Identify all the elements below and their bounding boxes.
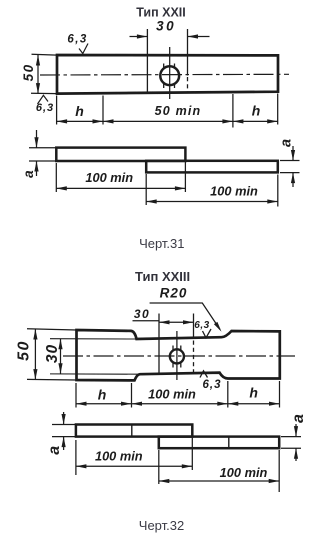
svg-text:a: a bbox=[279, 139, 295, 147]
svg-text:Черт.32: Черт.32 bbox=[139, 518, 184, 533]
side view: upper bar bbox=[76, 425, 192, 437]
side view: lower bar bbox=[159, 437, 279, 449]
svg-text:h: h bbox=[252, 102, 261, 118]
svg-text:h: h bbox=[75, 103, 84, 119]
roughness mark 6,3 bottom-left bbox=[38, 95, 49, 104]
plug weld hole bbox=[170, 349, 184, 363]
side view: upper plate bbox=[56, 148, 185, 161]
svg-text:6,3: 6,3 bbox=[67, 34, 88, 46]
svg-text:100 min: 100 min bbox=[85, 170, 133, 185]
ext lines for 30 dim crossing grip bbox=[50, 339, 140, 375]
thickness dim a right (fig2) bbox=[281, 437, 301, 449]
bottom dimension chain h / 100 min / h bbox=[76, 381, 280, 408]
svg-text:6,3: 6,3 bbox=[36, 102, 54, 114]
plan view: plate edge x=187.3 (ext + solid + hidden) bbox=[187, 29, 189, 76]
thickness dim a (left) bbox=[29, 148, 56, 161]
hidden plate edge x=193.5 bbox=[193, 314, 195, 339]
svg-text:6,3: 6,3 bbox=[203, 379, 222, 391]
ext lines for 50 dim bbox=[27, 329, 77, 380]
svg-text:100 min: 100 min bbox=[210, 184, 258, 199]
svg-text:Черт.31: Черт.31 bbox=[139, 236, 184, 251]
bottom dimension chain h / 50 min / h bbox=[57, 94, 278, 128]
svg-text:100 min: 100 min bbox=[220, 465, 268, 480]
svg-text:30: 30 bbox=[134, 307, 150, 321]
svg-text:6,3: 6,3 bbox=[194, 320, 209, 331]
thickness dim a left (fig2) bbox=[52, 425, 75, 437]
dimension 50 (left vertical) bbox=[31, 54, 57, 93]
horizontal axis centerline bbox=[63, 355, 295, 357]
side view: lower plate bbox=[146, 161, 278, 173]
hole edge ticks bbox=[164, 64, 175, 89]
dim 100 min (upper plate) bbox=[56, 162, 185, 192]
svg-text:a: a bbox=[46, 446, 63, 455]
svg-text:Тип XXIII: Тип XXIII bbox=[135, 269, 190, 284]
plan view: visible plate edge x=146.7 bbox=[146, 29, 148, 93]
hole vertical centerline bbox=[169, 47, 171, 99]
svg-text:30: 30 bbox=[156, 19, 176, 34]
svg-text:30: 30 bbox=[44, 344, 61, 363]
visible plate edge x=159 bbox=[158, 314, 160, 374]
svg-text:h: h bbox=[98, 387, 107, 403]
dim 100 min (lower bar) bbox=[159, 450, 279, 492]
thickness dim a (right) bbox=[280, 161, 300, 173]
plan view: outline (slightly skewed scan) bbox=[57, 55, 278, 94]
plan view outline (lap joint, narrowed middle) bbox=[77, 330, 280, 380]
joint line in lower bar bbox=[228, 437, 230, 449]
svg-text:100 min: 100 min bbox=[95, 448, 143, 463]
svg-text:a: a bbox=[21, 170, 36, 178]
svg-text:100 min: 100 min bbox=[148, 387, 196, 402]
hole vertical centerline bbox=[176, 331, 178, 380]
dimension 30 (left) bbox=[60, 339, 62, 374]
svg-text:Тип XXII: Тип XXII bbox=[136, 6, 186, 20]
dimension 30 (top) bbox=[130, 36, 210, 38]
dimension 50 (left) bbox=[34, 329, 36, 380]
dim 100 min (upper bar) bbox=[76, 438, 192, 475]
svg-text:50 min: 50 min bbox=[155, 104, 202, 118]
svg-text:R20: R20 bbox=[160, 286, 188, 301]
dim 100 min (lower plate) bbox=[146, 174, 278, 207]
plan view: horizontal axis centerline bbox=[40, 73, 289, 76]
svg-text:a: a bbox=[290, 414, 307, 423]
svg-text:h: h bbox=[249, 385, 258, 401]
svg-text:50: 50 bbox=[21, 63, 36, 81]
plug weld hole bbox=[160, 66, 179, 85]
joint line in upper bar bbox=[131, 425, 133, 437]
roughness 6,3 at bottom fillet bbox=[200, 371, 208, 378]
svg-text:50: 50 bbox=[15, 340, 32, 361]
hole edge ticks bbox=[173, 346, 181, 368]
R20 leader line bbox=[150, 303, 220, 330]
